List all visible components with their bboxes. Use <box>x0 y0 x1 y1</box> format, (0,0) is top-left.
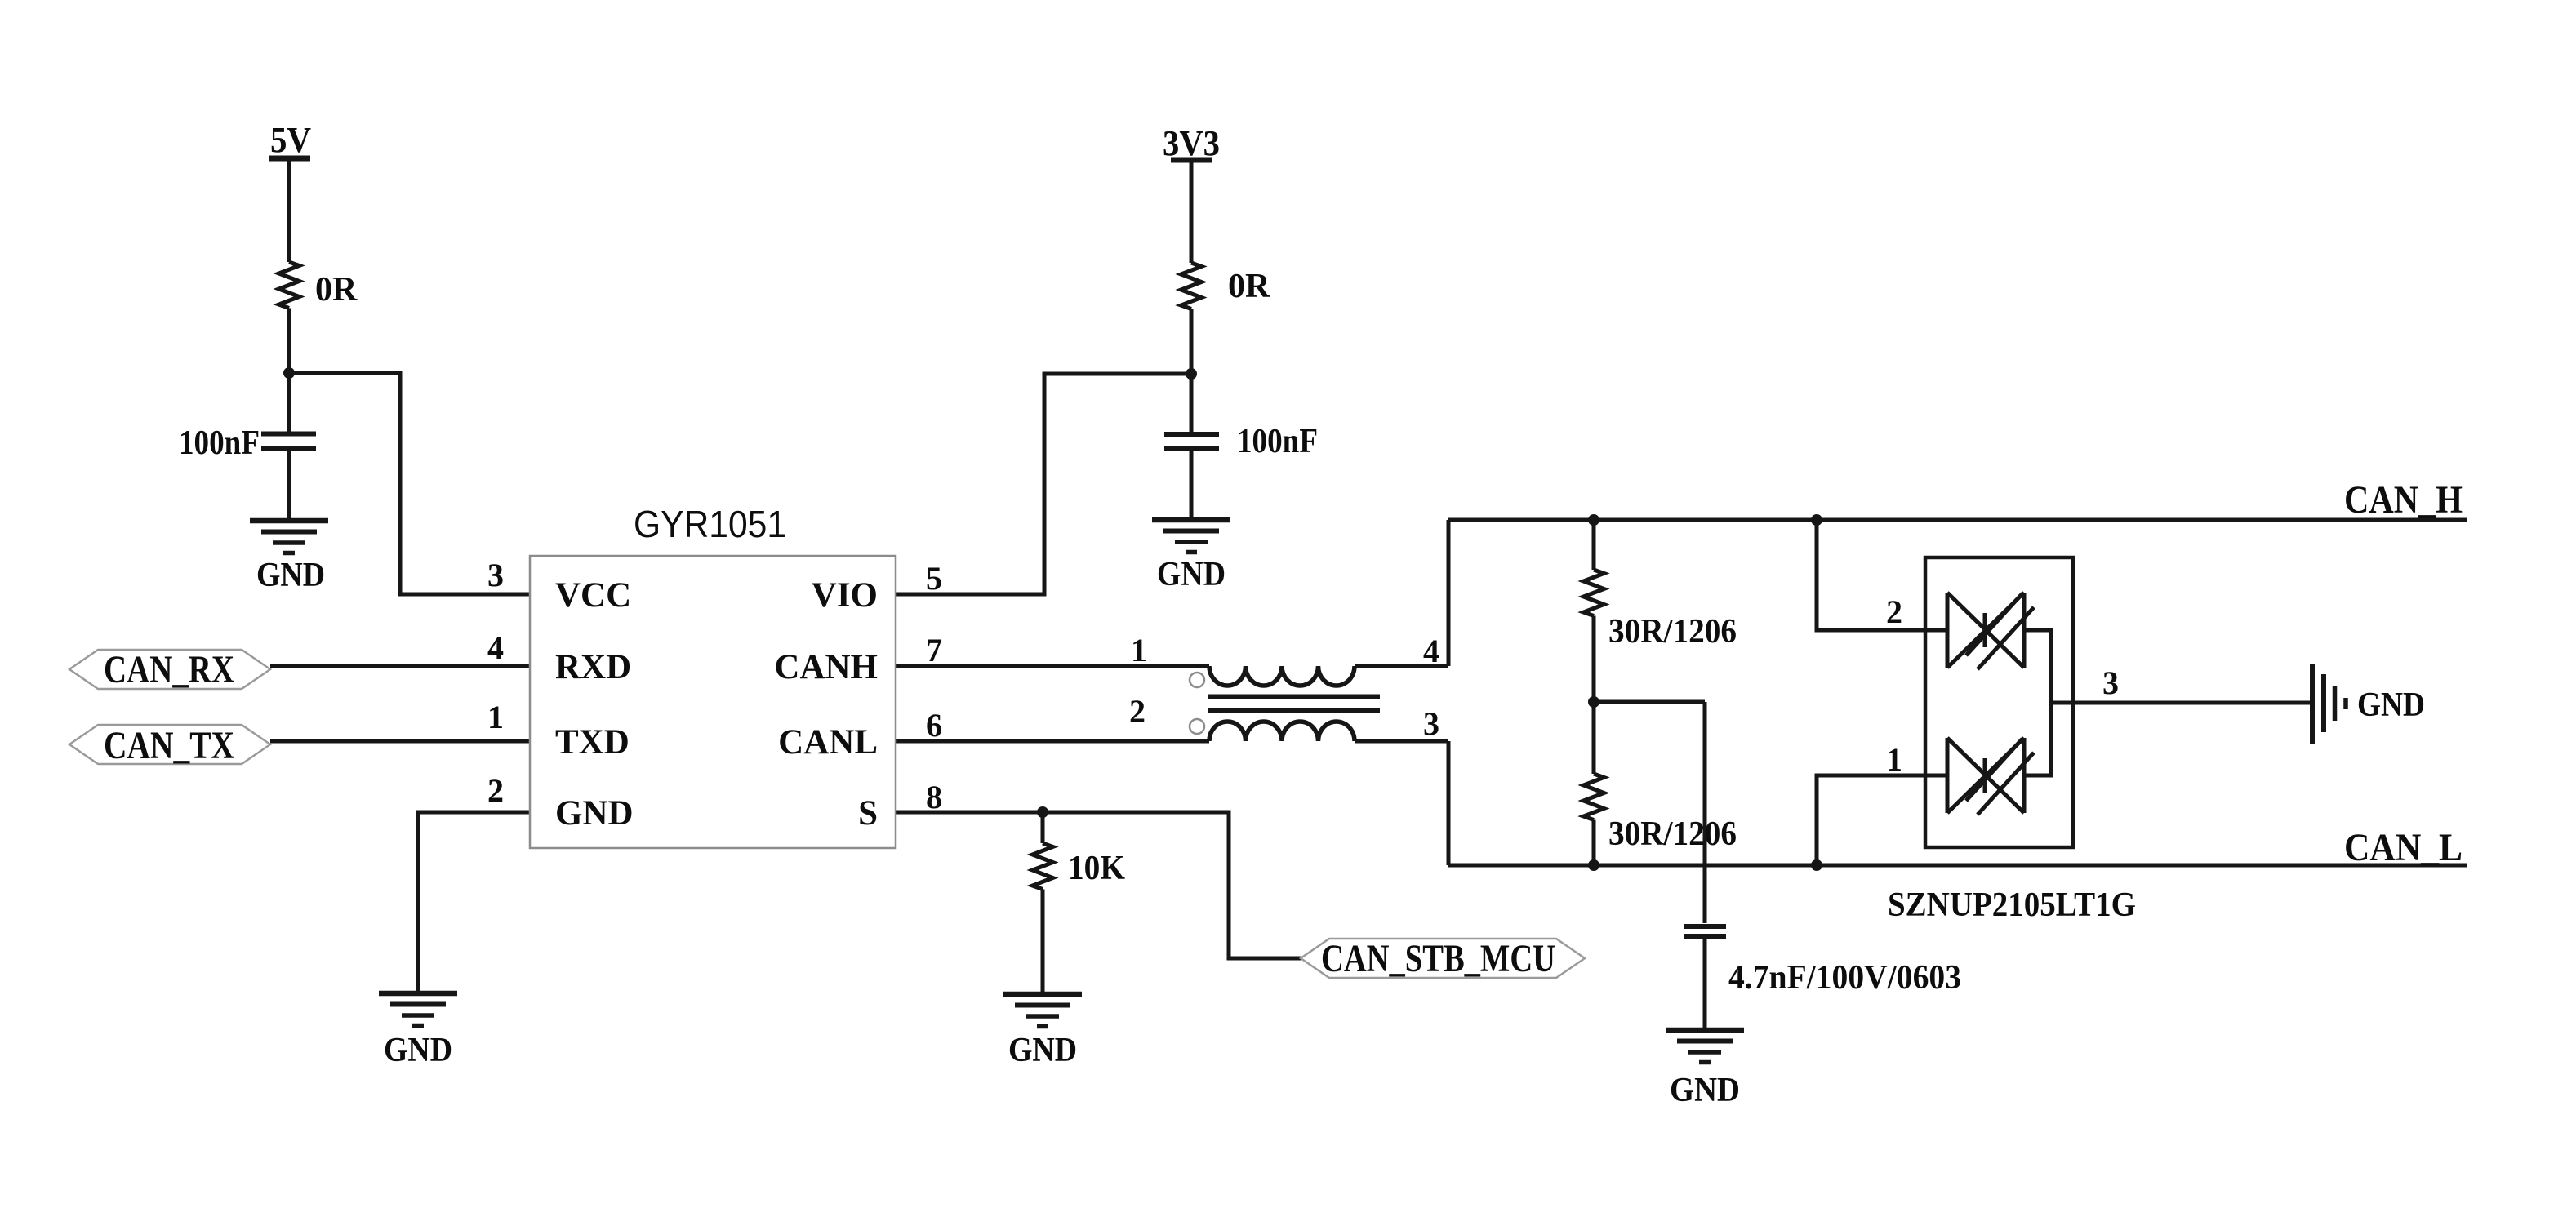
svg-text:1: 1 <box>1131 632 1147 668</box>
svg-text:GND: GND <box>555 794 634 833</box>
svg-text:2: 2 <box>1886 593 1902 630</box>
svg-text:GND: GND <box>2357 686 2425 724</box>
svg-text:2: 2 <box>1129 693 1146 730</box>
svg-text:5: 5 <box>926 560 942 597</box>
svg-text:CAN_STB_MCU: CAN_STB_MCU <box>1321 937 1555 980</box>
svg-text:100nF: 100nF <box>1237 423 1318 460</box>
svg-text:GND: GND <box>1670 1072 1740 1109</box>
svg-text:1: 1 <box>487 699 504 735</box>
svg-text:0R: 0R <box>315 271 358 309</box>
svg-text:0R: 0R <box>1228 268 1270 305</box>
svg-text:RXD: RXD <box>555 648 631 686</box>
svg-text:TXD: TXD <box>555 723 630 762</box>
svg-text:CAN_L: CAN_L <box>2344 826 2463 869</box>
svg-text:4: 4 <box>1423 633 1439 669</box>
svg-text:CANL: CANL <box>778 723 878 762</box>
svg-text:3: 3 <box>2102 664 2119 701</box>
svg-text:CAN_TX: CAN_TX <box>104 724 234 767</box>
svg-text:S: S <box>858 794 878 833</box>
svg-text:2: 2 <box>487 772 504 809</box>
svg-text:CAN_H: CAN_H <box>2344 478 2463 522</box>
svg-text:1: 1 <box>1886 741 1902 778</box>
svg-text:5V: 5V <box>270 120 311 160</box>
svg-text:VIO: VIO <box>812 576 878 615</box>
svg-text:30R/1206: 30R/1206 <box>1608 613 1737 651</box>
svg-text:CAN_RX: CAN_RX <box>104 648 234 691</box>
svg-text:30R/1206: 30R/1206 <box>1608 815 1737 853</box>
svg-text:3: 3 <box>1423 705 1439 742</box>
svg-text:8: 8 <box>926 779 942 815</box>
svg-text:GND: GND <box>384 1032 452 1069</box>
svg-text:GYR1051: GYR1051 <box>634 503 786 545</box>
svg-text:3V3: 3V3 <box>1163 123 1220 163</box>
svg-text:GND: GND <box>1157 556 1226 593</box>
svg-text:4.7nF/100V/0603: 4.7nF/100V/0603 <box>1728 959 1961 997</box>
svg-text:3: 3 <box>487 557 504 593</box>
svg-text:GND: GND <box>1008 1032 1077 1069</box>
svg-text:6: 6 <box>926 707 942 744</box>
svg-text:CANH: CANH <box>774 648 878 686</box>
svg-text:7: 7 <box>926 632 942 668</box>
svg-text:SZNUP2105LT1G: SZNUP2105LT1G <box>1888 886 2136 924</box>
svg-text:GND: GND <box>256 557 325 594</box>
svg-text:VCC: VCC <box>555 576 631 615</box>
svg-text:4: 4 <box>487 629 504 666</box>
svg-text:100nF: 100nF <box>179 424 260 462</box>
svg-text:10K: 10K <box>1068 850 1125 887</box>
